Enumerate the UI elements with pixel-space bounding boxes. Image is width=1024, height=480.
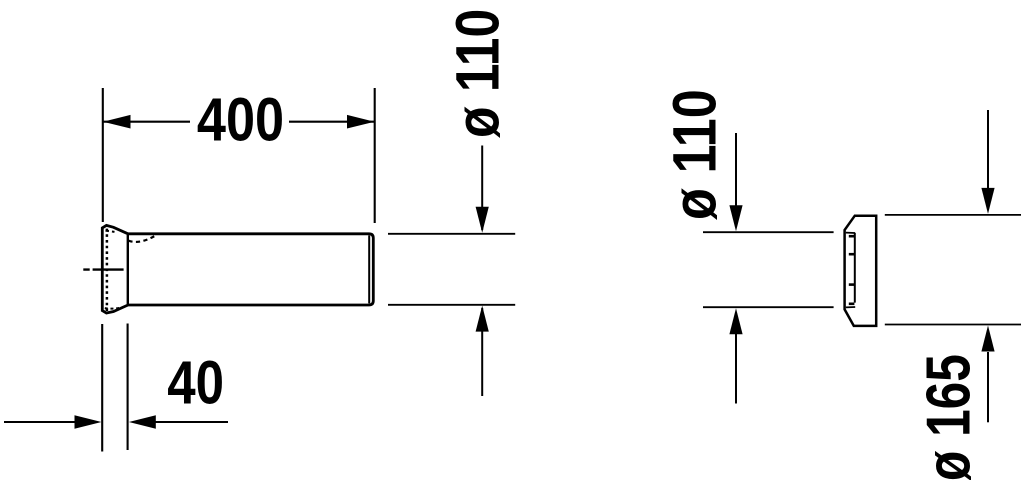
dimension ø165: upper arrow line	[987, 110, 989, 188]
svg-text:ø 110: ø 110	[444, 9, 512, 138]
centerline at flange	[83, 268, 123, 270]
dimension 400: left extension line	[102, 88, 104, 222]
dimension 400: right arrowhead	[347, 115, 375, 129]
sleeve tick 2	[849, 253, 855, 256]
pipe end inner vertical line	[368, 235, 370, 303]
inner sleeve bottom line	[846, 306, 855, 308]
svg-text:ø 165: ø 165	[913, 354, 983, 480]
dimension 400: dimension line	[103, 121, 375, 123]
dimension ø110 left view: top extension line	[388, 233, 515, 235]
dimension ø110 right view: lower arrow line	[735, 334, 737, 404]
dimension ø165: upper arrowhead (down)	[981, 188, 994, 214]
inner sleeve top line	[846, 232, 855, 234]
dimension ø110 right view: bottom extension line	[703, 306, 834, 308]
dimension 40: left extension line	[101, 324, 103, 452]
sleeve tick 1	[849, 235, 855, 238]
dimension 40: left arrowhead	[75, 415, 102, 428]
dimension 40: left dimension line	[4, 421, 76, 423]
svg-text:400: 400	[197, 85, 284, 154]
dimension ø110 left view: upper arrow line	[481, 146, 483, 231]
dotted inner wall of flange (hidden line)	[106, 229, 109, 312]
dimension 40: right arrowhead	[129, 415, 156, 428]
dimension ø165: bottom extension line	[885, 324, 1021, 326]
hidden dashes top inside flange	[106, 231, 115, 232]
dimension ø165: lower arrow line	[987, 352, 989, 422]
dimension 40: right dimension line	[154, 421, 228, 423]
flange-to-pipe junction vertical line	[127, 235, 129, 304]
hidden curve inside pipe at flare	[129, 235, 157, 242]
svg-text:40: 40	[167, 348, 224, 417]
hidden dashes bottom inside flange	[105, 306, 126, 308]
dimension 40: right extension line	[127, 324, 129, 451]
sleeve tick 3	[849, 283, 855, 286]
dimension ø110 left view: lower arrow line	[481, 308, 483, 396]
flange outline (right view)	[845, 216, 877, 326]
dimension ø110 right view: top extension line	[703, 231, 834, 233]
inner sleeve vertical line	[854, 233, 856, 303]
dimension ø165: top extension line	[885, 214, 1021, 216]
svg-text:ø 110: ø 110	[660, 89, 729, 220]
dimension ø110 left view: upper arrowhead (down)	[476, 207, 489, 233]
sleeve tick 4	[849, 302, 855, 305]
dimension ø110 left view: lower arrowhead (up)	[476, 306, 489, 332]
dimension 400: left arrowhead	[103, 115, 131, 129]
dimension ø110 right view: upper arrow line	[735, 133, 737, 206]
dimension ø110 right view: lower arrowhead (up)	[729, 308, 742, 334]
dimension 400: right extension line	[374, 88, 376, 223]
dimension ø110 left view: bottom extension line	[388, 304, 515, 306]
dimension ø110 right view: upper arrowhead (down)	[729, 205, 742, 231]
dimension ø165: lower arrowhead (up)	[981, 326, 994, 352]
pipe and flange outer outline	[102, 225, 373, 313]
